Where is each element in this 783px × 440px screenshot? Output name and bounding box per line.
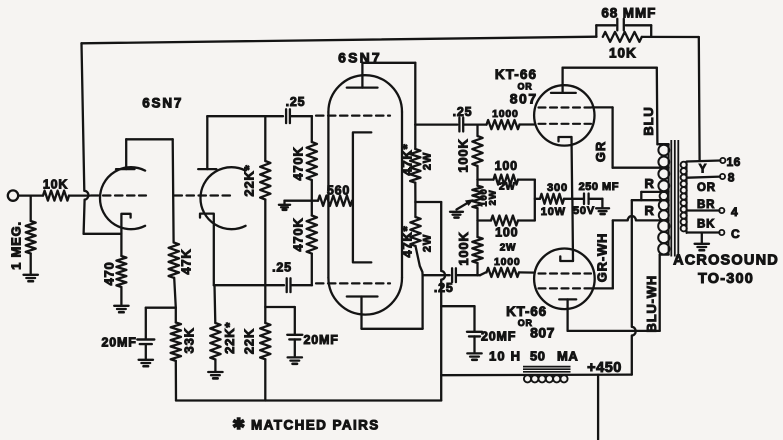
resistor 47K* 2W (upper driver plate load) xyxy=(414,125,416,149)
V1a cathode xyxy=(121,214,130,256)
wire: driver B+ tap to 47K center xyxy=(415,201,441,203)
output tube KT-66 lower xyxy=(534,248,595,309)
svg-text:807: 807 xyxy=(530,325,555,341)
terminal 16 xyxy=(720,158,725,163)
V2a grid dashed xyxy=(316,114,390,116)
wire: cathode node to tubes xyxy=(571,199,574,261)
svg-text:.25: .25 xyxy=(434,281,454,295)
wire: +450 rail xyxy=(441,373,632,376)
svg-text:TO-300: TO-300 xyxy=(698,271,754,287)
transformer T1 primary winding xyxy=(657,143,668,145)
svg-text:22K: 22K xyxy=(242,328,257,354)
resistor 470K (lower grid leak) xyxy=(311,201,313,216)
wire: cathode network vertical xyxy=(534,180,536,221)
svg-text:100: 100 xyxy=(495,159,518,173)
wire: upper screen to GR tap xyxy=(592,106,613,108)
svg-text:BLU: BLU xyxy=(641,106,656,135)
capacitor .25 (lower left coupling) xyxy=(286,278,288,292)
V1b plate xyxy=(198,168,216,170)
wire: feedback to cathode link xyxy=(84,233,122,235)
svg-text:33K: 33K xyxy=(182,327,197,353)
capacitor .25 (upper left coupling) xyxy=(285,109,287,123)
svg-text:BR: BR xyxy=(697,199,715,211)
svg-text:100K: 100K xyxy=(456,231,471,265)
secondary lead BR to 4 xyxy=(688,209,720,211)
wire: B+ bus riser (hops over lower coupling line) xyxy=(441,202,445,401)
svg-text:✱: ✱ xyxy=(232,416,245,433)
svg-text:250 MF: 250 MF xyxy=(579,181,619,193)
KT-66 lower cathode xyxy=(560,256,573,261)
svg-text:20MF: 20MF xyxy=(304,333,339,347)
resistor 22K (lower half load) xyxy=(264,285,266,323)
potentiometer 100 2W (balance) xyxy=(472,186,482,209)
svg-text:.25: .25 xyxy=(453,105,473,119)
ground (20MF first) xyxy=(139,359,153,361)
KT-66 lower grid dashed xyxy=(539,272,592,274)
svg-text:KT-66: KT-66 xyxy=(495,67,537,82)
resistor 10K (input grid stopper) xyxy=(43,191,69,201)
pot wiper arrow to ground xyxy=(457,202,470,210)
svg-text:47K: 47K xyxy=(179,248,194,274)
svg-text:10W: 10W xyxy=(541,206,566,218)
wire: V2b plate to lower right coupling xyxy=(362,328,423,330)
resistor 470 (V1a cathode bias) xyxy=(116,256,126,287)
svg-text:BLU-WH: BLU-WH xyxy=(644,275,659,333)
capacitor .25 (lower right coupling) xyxy=(451,268,453,282)
resistor 22K* (V1b cathode load) xyxy=(213,285,216,323)
capacitor 20MF (third filter at driver B+) xyxy=(441,305,474,307)
node: V1a grid dashed line xyxy=(91,194,146,196)
V1a plate xyxy=(116,168,135,170)
V1b grid dashed xyxy=(175,194,233,196)
wire: grid feed upper xyxy=(478,123,487,125)
transformer secondary winding xyxy=(686,162,688,234)
svg-text:2W: 2W xyxy=(422,152,434,170)
capacitor 20MF (second filter) xyxy=(265,306,295,308)
ground (1 MEG) xyxy=(24,274,38,276)
capacitor 250MF 50V xyxy=(583,194,585,205)
R tap stub upper xyxy=(641,191,668,193)
V1b triode envelope xyxy=(200,167,245,229)
svg-text:470: 470 xyxy=(101,261,116,285)
svg-text:20MF: 20MF xyxy=(102,335,137,349)
capacitor .25 (upper right coupling) xyxy=(458,118,460,132)
transformer core xyxy=(670,140,672,257)
feedback resistor 10K xyxy=(603,32,642,42)
svg-text:807: 807 xyxy=(510,91,538,107)
resistor 100K (upper grid return) xyxy=(476,125,478,136)
input terminal J1 xyxy=(8,190,18,200)
svg-text:2W: 2W xyxy=(488,190,499,206)
svg-text:10 H: 10 H xyxy=(489,349,521,364)
resistor 47K (V1a plate load) xyxy=(169,243,179,278)
svg-text:.25: .25 xyxy=(272,260,292,274)
triode V1a 6SN7 first section envelope xyxy=(100,167,145,229)
secondary lead OR to 8 xyxy=(688,177,721,178)
svg-text:OR: OR xyxy=(697,182,716,194)
svg-text:KT-66: KT-66 xyxy=(506,304,547,319)
resistor 470K (upper grid leak) xyxy=(311,116,313,142)
svg-text:R: R xyxy=(645,176,655,191)
svg-text:20MF: 20MF xyxy=(481,330,516,344)
wire: +450 down lead xyxy=(597,375,599,440)
svg-text:10K: 10K xyxy=(609,46,637,61)
wire: grid feed lower xyxy=(478,274,481,276)
wire: 10K to grid node xyxy=(69,194,90,196)
svg-text:50: 50 xyxy=(530,349,545,364)
KT-66 lower screen dashed xyxy=(539,287,593,289)
svg-text:Y: Y xyxy=(699,164,707,176)
svg-text:+450: +450 xyxy=(587,360,622,376)
V2b grid dashed xyxy=(316,282,390,284)
V2 common cathode bracket xyxy=(353,132,371,262)
wire: 470K junction to ground xyxy=(285,200,312,202)
svg-text:MATCHED PAIRS: MATCHED PAIRS xyxy=(251,418,380,433)
svg-text:C: C xyxy=(731,227,740,241)
KT-66 upper grid dashed xyxy=(539,123,592,125)
terminal 4 xyxy=(719,208,724,213)
resistor 100 2W (lower) xyxy=(478,219,492,221)
svg-text:6SN7: 6SN7 xyxy=(142,96,183,111)
svg-text:4: 4 xyxy=(731,205,738,219)
V2b plate bar xyxy=(347,295,378,297)
svg-text:470K: 470K xyxy=(291,146,306,180)
wire: lower plate to BLU-WH xyxy=(568,330,660,332)
ground (470K junction) xyxy=(279,204,290,206)
wire: left feedback vertical down to first cathode (hops over grid wire) xyxy=(82,43,89,234)
svg-text:300: 300 xyxy=(547,182,568,194)
secondary lead BK to C xyxy=(687,231,720,233)
svg-text:22K*: 22K* xyxy=(222,322,237,354)
choke 10H windings xyxy=(524,375,531,382)
driver tube 6SN7 (second) envelope xyxy=(328,75,402,112)
svg-text:R: R xyxy=(645,203,655,218)
resistor 1000 (upper grid stopper) xyxy=(487,120,520,129)
wire: B+ bus bottom xyxy=(176,399,441,401)
secondary lead Y to 16 xyxy=(687,161,721,162)
wire: R (B+) lead down to +450 rail (hops over BLU-WH) xyxy=(632,200,636,374)
svg-text:1000: 1000 xyxy=(492,108,519,120)
resistor 1 MEG (input load) xyxy=(30,196,32,221)
resistor 33K (decoupling) xyxy=(171,323,181,361)
svg-text:2W: 2W xyxy=(500,243,517,254)
terminal 8 xyxy=(720,174,725,179)
svg-text:100: 100 xyxy=(495,226,518,240)
svg-text:2W: 2W xyxy=(499,182,516,193)
svg-text:100K: 100K xyxy=(456,138,471,172)
ground (22K*) xyxy=(208,371,222,373)
resistor 560 (driver cathode bias) xyxy=(312,200,318,202)
svg-text:16: 16 xyxy=(727,155,741,169)
capacitor 68 MMF xyxy=(595,25,597,36)
resistor 47K* 2W (lower driver plate load) xyxy=(414,202,416,217)
ground (250MF) xyxy=(596,207,609,209)
wire: plate/47K vertical (direct coupling to V1b grid) xyxy=(172,139,175,242)
node: junction 47K/33K/20MF xyxy=(175,308,177,323)
KT-66 upper cathode xyxy=(559,137,572,141)
svg-text:1000: 1000 xyxy=(494,256,521,268)
wire: lower screen to GR-WH tap (hops over R lead) xyxy=(593,287,613,289)
ground (470) xyxy=(114,305,128,307)
svg-text:8: 8 xyxy=(728,170,735,184)
svg-text:MA: MA xyxy=(557,349,578,364)
wire: input to 10K xyxy=(18,194,43,196)
KT-66 lower plate xyxy=(559,298,576,300)
KT-66 upper screen dashed xyxy=(539,106,592,108)
capacitor 20MF (first filter) xyxy=(146,307,176,309)
svg-text:22K*: 22K* xyxy=(242,164,257,196)
wire: upper plate to BLU xyxy=(563,67,657,69)
resistor 100K (lower grid return) xyxy=(476,221,478,238)
wire: V1a plate over to 47K line xyxy=(126,138,173,140)
svg-text:68 MMF: 68 MMF xyxy=(601,5,656,20)
svg-text:GR: GR xyxy=(593,141,608,162)
svg-text:560: 560 xyxy=(327,183,350,197)
svg-text:ACROSOUND: ACROSOUND xyxy=(673,253,779,269)
KT-66 upper plate xyxy=(551,92,576,94)
V1b cathode xyxy=(200,214,214,286)
svg-text:BK: BK xyxy=(697,218,715,230)
wire: V2a plate to 47K chain top xyxy=(361,63,363,88)
svg-text:1 MEG.: 1 MEG. xyxy=(9,221,24,270)
wire: upper right coupling line xyxy=(415,123,457,125)
svg-text:6SN7: 6SN7 xyxy=(338,50,382,66)
svg-text:50V: 50V xyxy=(573,205,595,217)
svg-text:10K: 10K xyxy=(43,177,68,191)
resistor 100 2W (upper) xyxy=(478,178,494,180)
svg-text:GR-WH: GR-WH xyxy=(595,233,610,283)
choke 10H 50MA core xyxy=(523,366,571,368)
svg-text:2W: 2W xyxy=(422,234,434,252)
wire: feedback to 16 ohm tap xyxy=(698,37,701,160)
wire: lower coupling line cathode node to .25 xyxy=(214,284,284,286)
wire: upper coupling line V1b plate to .25 xyxy=(207,115,283,117)
resistor 22K* (V1b plate load) xyxy=(264,116,266,161)
wire: top feedback bus from input stage to 10K network xyxy=(82,37,597,44)
svg-text:470K: 470K xyxy=(291,217,306,251)
ground (secondary) xyxy=(701,233,703,244)
V2a plate bar xyxy=(347,86,378,88)
terminal C xyxy=(719,230,724,235)
resistor 1000 (lower grid stopper) xyxy=(487,268,520,277)
output tube KT-66 upper xyxy=(534,85,594,145)
resistor 300 10W (cathode bias) xyxy=(540,194,564,204)
svg-text:.25: .25 xyxy=(286,95,306,109)
